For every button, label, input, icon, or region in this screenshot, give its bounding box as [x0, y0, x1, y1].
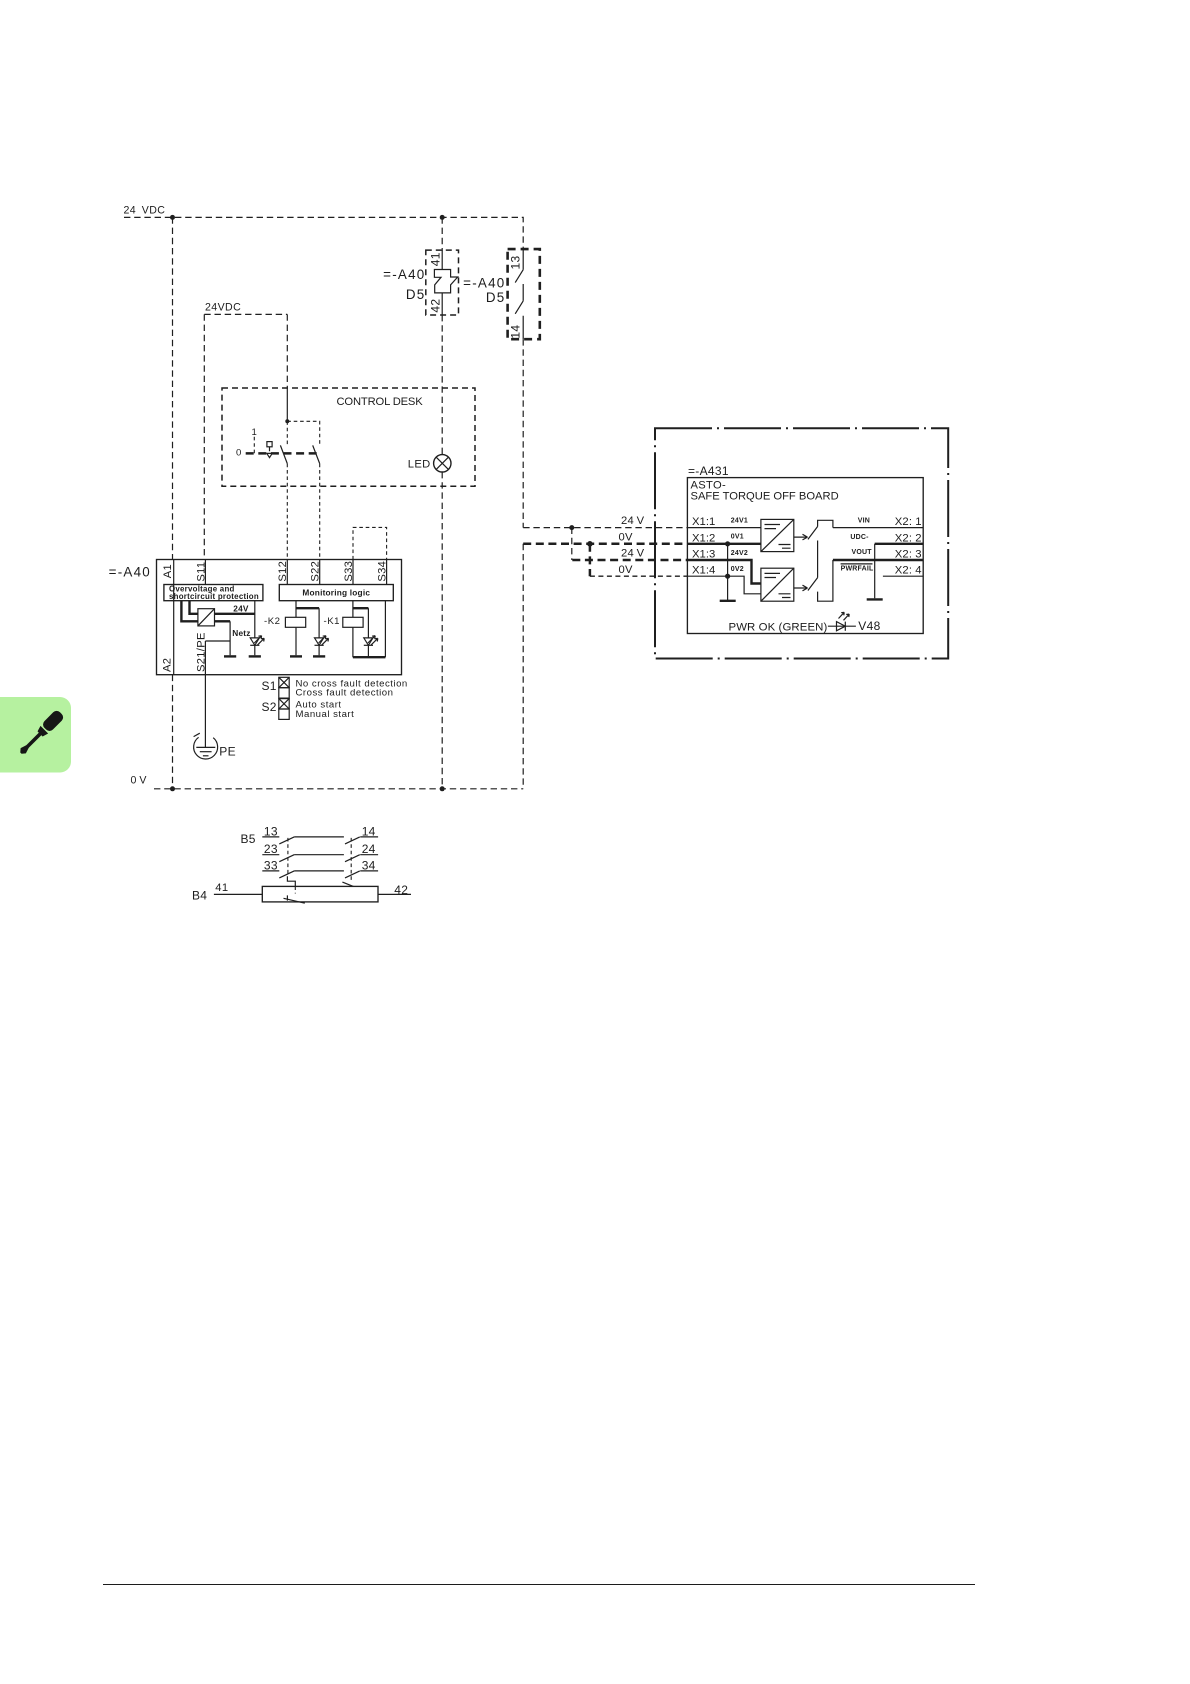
svg-text:-K2: -K2: [264, 616, 280, 627]
svg-text:S2: S2: [262, 700, 277, 714]
svg-text:UDC-: UDC-: [850, 534, 869, 541]
svg-text:LED: LED: [408, 458, 431, 470]
svg-text:X2: 3: X2: 3: [895, 549, 922, 561]
svg-text:33: 33: [264, 858, 278, 872]
svg-text:24 V: 24 V: [621, 515, 645, 527]
svg-text:X2: 4: X2: 4: [895, 565, 922, 577]
svg-text:D5: D5: [406, 287, 426, 302]
svg-text:Cross fault detection: Cross fault detection: [296, 688, 394, 699]
svg-text:41: 41: [428, 252, 442, 266]
svg-text:0 V: 0 V: [131, 774, 148, 786]
svg-text:=-A40: =-A40: [463, 275, 505, 290]
svg-text:X2: 2: X2: 2: [895, 532, 922, 544]
svg-text:CONTROL DESK: CONTROL DESK: [337, 396, 424, 408]
svg-text:Netz: Netz: [232, 628, 250, 638]
svg-text:24 VDC: 24 VDC: [124, 205, 166, 217]
svg-text:-K1: -K1: [324, 616, 340, 627]
svg-text:0V2: 0V2: [731, 566, 744, 573]
svg-text:14: 14: [362, 824, 376, 838]
svg-text:24V: 24V: [233, 604, 249, 614]
svg-text:34: 34: [362, 858, 376, 872]
svg-text:24 V: 24 V: [621, 548, 645, 560]
svg-text:0V1: 0V1: [731, 534, 744, 541]
svg-text:13: 13: [508, 256, 522, 270]
svg-text:1: 1: [252, 427, 258, 438]
svg-text:42: 42: [428, 299, 442, 313]
svg-text:0V: 0V: [619, 564, 634, 576]
svg-text:PWR OK (GREEN): PWR OK (GREEN): [729, 621, 828, 633]
svg-text:24VDC: 24VDC: [205, 302, 241, 314]
svg-text:A1: A1: [162, 564, 174, 578]
svg-text:0: 0: [236, 448, 242, 459]
svg-text:V48: V48: [858, 619, 880, 633]
svg-text:VIN: VIN: [858, 517, 870, 524]
svg-text:13: 13: [264, 824, 278, 838]
svg-text:X1:4: X1:4: [692, 565, 715, 577]
svg-text:VOUT: VOUT: [852, 549, 873, 556]
svg-text:SAFE TORQUE OFF BOARD: SAFE TORQUE OFF BOARD: [691, 491, 839, 503]
svg-text:B4: B4: [192, 888, 207, 902]
svg-text:X1:3: X1:3: [692, 549, 715, 561]
svg-text:D5: D5: [486, 290, 506, 305]
svg-text:23: 23: [264, 842, 278, 856]
svg-text:=-A431: =-A431: [688, 464, 729, 478]
svg-text:=-A40: =-A40: [109, 564, 151, 579]
svg-text:Manual start: Manual start: [296, 709, 355, 720]
svg-text:B5: B5: [241, 832, 256, 846]
svg-text:0V: 0V: [619, 532, 634, 544]
svg-text:42: 42: [394, 883, 408, 897]
svg-text:14: 14: [509, 325, 523, 339]
svg-text:PE: PE: [219, 745, 236, 759]
svg-text:X1:1: X1:1: [692, 516, 715, 528]
svg-text:Monitoring logic: Monitoring logic: [302, 587, 370, 597]
svg-text:X1:2: X1:2: [692, 532, 715, 544]
svg-text:shortcircuit protection: shortcircuit protection: [169, 592, 259, 601]
svg-text:X2: 1: X2: 1: [895, 516, 922, 528]
svg-text:24: 24: [362, 842, 376, 856]
svg-text:24V1: 24V1: [731, 517, 748, 524]
svg-text:S1: S1: [262, 679, 277, 693]
svg-text:A2: A2: [162, 658, 174, 672]
svg-text:24V2: 24V2: [731, 550, 748, 557]
svg-text:PWRFAIL: PWRFAIL: [841, 565, 874, 572]
svg-text:41: 41: [215, 882, 228, 894]
svg-text:=-A40: =-A40: [383, 267, 425, 282]
